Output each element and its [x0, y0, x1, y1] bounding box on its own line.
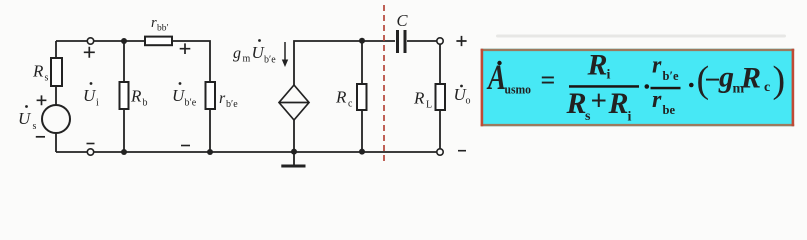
wire: output terminal down to RL	[439, 45, 441, 85]
svg-text:L: L	[426, 100, 432, 111]
label rbb'	[151, 15, 169, 34]
voltage source Us	[42, 105, 70, 133]
node B junction	[121, 38, 127, 44]
formula box	[481, 49, 795, 127]
node collector top junction	[359, 38, 365, 44]
formula multiplication dot 2	[689, 83, 694, 88]
label Ui	[83, 82, 99, 108]
terminal output bottom	[437, 149, 443, 155]
ground	[281, 152, 305, 166]
resistor RL	[436, 84, 446, 110]
svg-text:R: R	[608, 87, 629, 120]
svg-text:U: U	[18, 109, 32, 128]
wire: capacitor to output terminal	[407, 40, 437, 42]
svg-text:s: s	[33, 121, 37, 132]
svg-text:i: i	[628, 110, 632, 125]
bottom rail wire	[56, 151, 87, 153]
node ground junction	[291, 149, 297, 155]
arrow of controlled source direction	[282, 42, 288, 67]
resistor Rb	[120, 82, 129, 109]
svg-text:s: s	[45, 73, 49, 84]
label Us	[18, 105, 37, 132]
svg-text:b′e: b′e	[226, 99, 238, 110]
controlled current source diamond	[279, 85, 309, 120]
dashed separator line	[383, 5, 385, 165]
label - Ub'e bottom	[181, 145, 190, 147]
label + input	[84, 47, 95, 58]
svg-text:R: R	[32, 62, 44, 81]
label - input	[87, 143, 95, 145]
terminal input top	[87, 38, 93, 44]
label + after rbb'	[180, 43, 191, 54]
label - of source	[36, 136, 45, 138]
wire: node B down to Rb	[123, 41, 125, 82]
label gmUb'e of controlled source	[233, 39, 276, 65]
label Ub'e	[172, 82, 197, 108]
label - output	[458, 150, 466, 152]
svg-text:b′e: b′e	[663, 69, 679, 83]
resistor Rc	[357, 84, 367, 110]
wire: Rs to source	[55, 86, 57, 105]
label RL	[413, 89, 432, 111]
svg-text:r: r	[652, 53, 662, 79]
svg-text:+: +	[591, 85, 608, 117]
label Rb	[130, 87, 148, 109]
svg-text:r: r	[219, 90, 226, 107]
wire: Rc to bottom rail	[361, 110, 363, 152]
formula Ausmo gain expression	[487, 49, 786, 125]
wire: diamond bottom to ground node	[293, 120, 295, 152]
label Rs	[32, 62, 49, 84]
svg-text:U: U	[83, 86, 97, 105]
svg-text:R: R	[130, 87, 142, 106]
label + output	[456, 36, 466, 46]
capacitor C	[398, 30, 406, 53]
svg-text:R: R	[587, 49, 608, 82]
wire: left branch top corner to Rs	[55, 41, 57, 58]
terminal input bottom	[87, 149, 93, 155]
svg-text:o: o	[466, 96, 471, 107]
svg-text:R: R	[740, 62, 761, 95]
wire: rb'e to bottom rail	[209, 109, 211, 152]
wire: terminal to node B	[94, 40, 145, 42]
svg-text:i: i	[607, 68, 611, 83]
svg-text:=: =	[541, 66, 556, 95]
label rb'e	[219, 90, 238, 110]
formula fraction rb'e over rbe	[651, 87, 681, 90]
wire: source to bottom rail	[55, 133, 57, 152]
wire: RL to output terminal bottom	[439, 110, 441, 149]
svg-text:R: R	[335, 88, 347, 107]
svg-text:): )	[773, 59, 786, 101]
svg-text:m: m	[243, 54, 251, 65]
resistor rb'e	[206, 82, 216, 109]
wire: rbb' to corner B'	[172, 41, 210, 82]
svg-text:c: c	[348, 99, 353, 110]
svg-text:b: b	[143, 98, 148, 109]
bottom rail wire middle	[94, 151, 437, 153]
svg-text:usmo: usmo	[505, 82, 532, 97]
formula multiplication dot	[645, 84, 650, 89]
svg-text:C: C	[397, 11, 409, 30]
node rb'e bottom junction	[207, 149, 213, 155]
decorative faint band	[496, 35, 786, 38]
svg-text:b′e: b′e	[264, 55, 276, 66]
terminal output top	[437, 38, 443, 44]
svg-text:be: be	[663, 103, 676, 117]
label Rc	[335, 88, 353, 110]
resistor rbb'	[145, 37, 172, 46]
wire: top corner above diamond	[294, 41, 362, 86]
svg-text:A: A	[487, 57, 506, 97]
svg-text:bb′: bb′	[157, 24, 169, 34]
label Uo	[454, 85, 471, 107]
svg-text:b′e: b′e	[185, 98, 197, 109]
node Rb bottom junction	[121, 149, 127, 155]
svg-text:g: g	[233, 45, 241, 62]
resistor Rs	[51, 58, 62, 86]
wire: top rail left	[56, 40, 87, 42]
svg-text:i: i	[96, 98, 99, 109]
svg-text:r: r	[652, 87, 662, 113]
wire: node to capacitor	[362, 40, 395, 42]
node Rc bottom junction	[359, 149, 365, 155]
formula fraction Ri over Rs+Ri	[569, 85, 639, 88]
wire: Rb to bottom rail	[123, 109, 125, 152]
svg-text:c: c	[764, 80, 770, 95]
wire: node down to Rc	[361, 41, 363, 84]
svg-text:R: R	[566, 87, 587, 120]
label + of source	[37, 95, 47, 105]
svg-text:R: R	[413, 89, 425, 108]
